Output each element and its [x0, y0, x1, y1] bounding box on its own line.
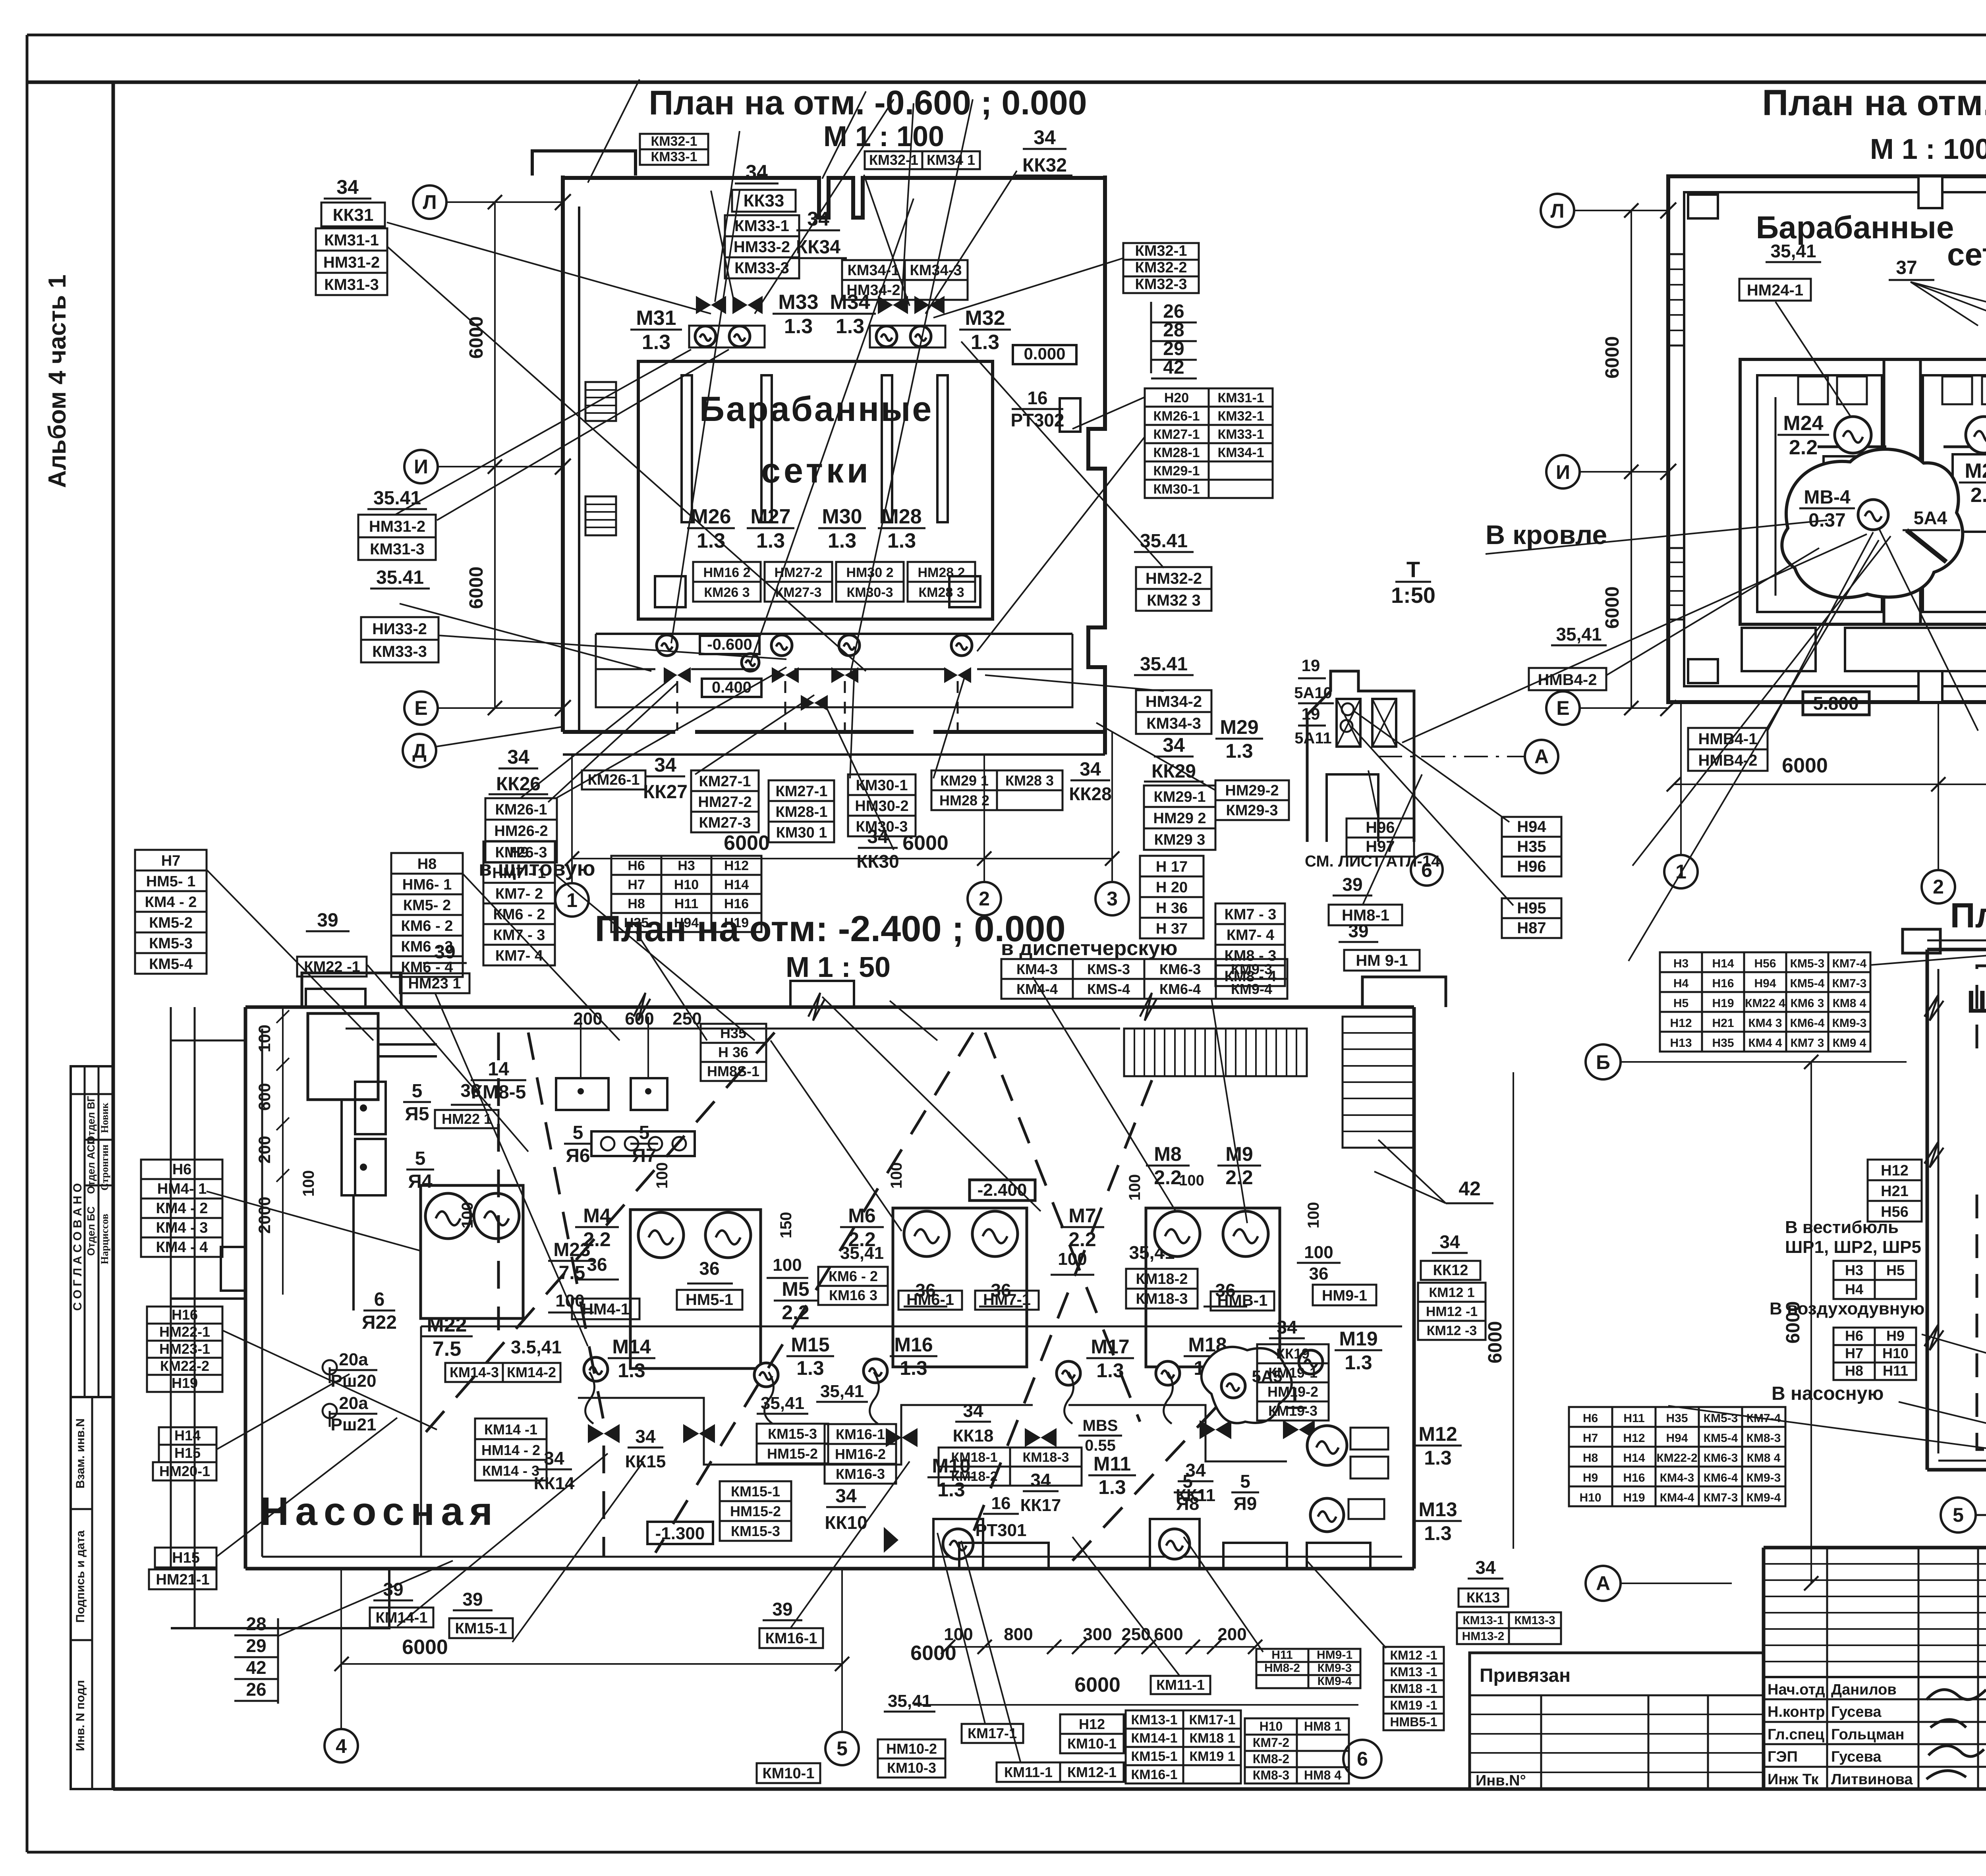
label M9: [1217, 1143, 1261, 1189]
cluster KK15: [628, 1426, 663, 1448]
label 100 36 right: [1297, 1243, 1341, 1283]
svg-text:6000: 6000: [902, 832, 949, 855]
svg-text:КК15: КК15: [625, 1452, 666, 1471]
svg-text:1.3: 1.3: [1096, 1359, 1124, 1382]
boxes 39 KM16-1 bottom: [763, 1599, 802, 1620]
svg-text:800: 800: [1004, 1625, 1033, 1644]
svg-text:КМ18 1: КМ18 1: [1189, 1731, 1235, 1746]
svg-text:КК26: КК26: [496, 774, 541, 795]
table KM4-3 group: [1001, 959, 1287, 999]
svg-text:Л: Л: [423, 191, 437, 213]
svg-text:НМ22 1: НМ22 1: [442, 1111, 492, 1127]
roof blob: [1782, 449, 1963, 598]
cluster KM30 bottom: [848, 774, 916, 836]
boxes NM30: [836, 562, 904, 602]
vzam inv stamp block: [71, 1397, 113, 1789]
svg-text:Н14: Н14: [174, 1427, 201, 1444]
motor M18: [1156, 1361, 1180, 1385]
svg-text:КК32: КК32: [1022, 155, 1067, 176]
svg-text:КМ13 -1: КМ13 -1: [1390, 1665, 1437, 1679]
plan1 left stair hatch: [585, 382, 616, 421]
svg-text:Н7: Н7: [628, 877, 645, 892]
svg-text:34: 34: [507, 746, 529, 768]
box NM9-1 right: [1313, 1285, 1376, 1305]
svg-text:И: И: [1556, 461, 1570, 483]
label M33: [773, 291, 824, 338]
svg-text:Стронгин: Стронгин: [99, 1145, 110, 1191]
plan4 wall breaks: [1924, 925, 1986, 1350]
svg-text:НМ28 2: НМ28 2: [918, 565, 965, 580]
motor M13: [1310, 1498, 1344, 1532]
valve pair left: [696, 296, 711, 314]
plan3 break marks top: [634, 993, 1157, 1021]
svg-text:Я7: Я7: [632, 1145, 656, 1166]
label M6: [840, 1204, 884, 1251]
svg-text:5: 5: [415, 1148, 426, 1169]
svg-text:ГЭП: ГЭП: [1768, 1749, 1798, 1765]
svg-text:6000: 6000: [402, 1636, 448, 1659]
svg-text:КМ19-3: КМ19-3: [1268, 1403, 1318, 1419]
svg-text:КМ7- 4: КМ7- 4: [495, 948, 543, 964]
svg-text:КМ12-1: КМ12-1: [1067, 1764, 1117, 1780]
plan2 vert dim: [1631, 210, 1632, 708]
svg-text:Н56: Н56: [1754, 957, 1776, 970]
svg-text:Н35: Н35: [1712, 1036, 1734, 1050]
svg-text:Н9: Н9: [510, 844, 529, 861]
svg-text:НМ15-2: НМ15-2: [730, 1503, 781, 1519]
svg-text:КМ27-3: КМ27-3: [699, 814, 751, 831]
svg-text:НМ34-2: НМ34-2: [846, 282, 900, 299]
svg-text:М30: М30: [822, 505, 862, 528]
motor group M6: [893, 1208, 1027, 1367]
stack KM12-1 KM13-1: [1383, 1647, 1444, 1730]
cluster KK31: [324, 176, 371, 199]
svg-text:М 1 : 50: М 1 : 50: [786, 952, 891, 983]
plan3 left outer wall stubs: [306, 977, 1446, 1007]
svg-text:5.800: 5.800: [1813, 693, 1858, 714]
svg-text:А: А: [1596, 1572, 1610, 1594]
svg-text:КМ9-4: КМ9-4: [1318, 1675, 1352, 1688]
svg-text:Гусева: Гусева: [1831, 1749, 1882, 1765]
svg-text:КК27: КК27: [643, 782, 688, 803]
svg-text:1.3: 1.3: [887, 529, 916, 552]
svg-text:Барабанные: Барабанные: [699, 389, 933, 428]
plan4 axis A left: [1586, 1566, 1621, 1601]
cluster H6 left mid: [141, 1160, 222, 1257]
ladder 28 29 42 26: [234, 1614, 278, 1704]
svg-text:35,41: 35,41: [820, 1382, 864, 1401]
svg-text:34: 34: [654, 754, 676, 776]
svg-text:КМ6 - 2: КМ6 - 2: [829, 1268, 878, 1284]
svg-text:200: 200: [573, 1009, 602, 1029]
svg-text:КМ5-4: КМ5-4: [149, 956, 193, 973]
svg-text:КМ12 -1: КМ12 -1: [1390, 1648, 1437, 1662]
box KM11-1 bottom: [1151, 1676, 1210, 1694]
label M25 box: [1959, 459, 1986, 507]
svg-text:28: 28: [1163, 320, 1184, 341]
boxes NM32-2: [1136, 567, 1211, 611]
svg-text:29: 29: [1163, 338, 1184, 359]
svg-text:План на отм. -0.600 ; 0.000: План на отм. -0.600 ; 0.000: [649, 84, 1087, 122]
svg-text:МВS: МВS: [1083, 1417, 1118, 1434]
plan2 bottom axes: [1664, 855, 1698, 888]
svg-text:Л: Л: [1550, 200, 1564, 222]
svg-text:КМ19-1: КМ19-1: [1268, 1365, 1318, 1381]
svg-text:Н 36: Н 36: [718, 1044, 748, 1060]
label М27: [747, 505, 794, 552]
motor M16: [864, 1359, 887, 1383]
svg-text:И: И: [414, 455, 428, 478]
svg-text:Новик: Новик: [99, 1103, 110, 1133]
svg-text:НМ30 2: НМ30 2: [846, 565, 893, 580]
label М30: [818, 505, 866, 552]
svg-text:2.2: 2.2: [782, 1301, 809, 1324]
svg-text:КМ33-1: КМ33-1: [651, 149, 697, 164]
svg-text:36: 36: [1309, 1264, 1329, 1283]
svg-text:НМ4- 1: НМ4- 1: [157, 1181, 207, 1197]
svg-text:План на отм. 5.800: План на отм. 5.800: [1762, 83, 1986, 123]
svg-text:НМ14 - 2: НМ14 - 2: [481, 1442, 540, 1458]
svg-text:34: 34: [1277, 1317, 1297, 1338]
plan4 leaders: [1668, 950, 1986, 1453]
svg-text:5: 5: [837, 1737, 848, 1760]
elevation 0.400: [702, 679, 761, 697]
plan4 dashed zone: [1977, 966, 1986, 1449]
misc leaders plan3: [207, 870, 1386, 1763]
svg-text:КМ13-1: КМ13-1: [1462, 1614, 1503, 1627]
svg-text:2.2: 2.2: [1789, 436, 1818, 459]
motor M25: [1966, 417, 1986, 453]
svg-text:КМ30 1: КМ30 1: [776, 824, 827, 841]
svg-text:Инв. N подл: Инв. N подл: [74, 1680, 87, 1751]
svg-text:КМ9-3: КМ9-3: [1318, 1662, 1352, 1675]
svg-text:В кровле: В кровле: [1486, 520, 1607, 550]
svg-text:Н14: Н14: [724, 877, 749, 892]
plan4 bottom axes: [1941, 1498, 1976, 1532]
svg-text:КМ28-1: КМ28-1: [776, 804, 828, 820]
svg-text:Отдел БС: Отдел БС: [85, 1206, 97, 1256]
svg-text:Н12: Н12: [1670, 1017, 1692, 1030]
svg-text:Н94: Н94: [1666, 1432, 1688, 1445]
svg-text:1.3: 1.3: [1424, 1447, 1452, 1469]
svg-text:Взам. инв.N: Взам. инв.N: [74, 1419, 87, 1489]
plan3 upper corridor lines: [171, 1040, 245, 1042]
svg-text:Данилов: Данилов: [1831, 1681, 1897, 1698]
signature squiggles: [1926, 1690, 1986, 1779]
svg-text:Нарциссов: Нарциссов: [99, 1214, 110, 1264]
cluster 35.41 NM31: [367, 488, 427, 509]
svg-text:М9: М9: [1225, 1143, 1253, 1165]
plan3 busbar hatch: [1124, 1029, 1307, 1076]
plan1 vertical dimension line: [494, 202, 496, 708]
svg-text:Альбом 4 часть 1: Альбом 4 часть 1: [44, 274, 71, 488]
svg-text:НМ22-1: НМ22-1: [159, 1324, 210, 1340]
svg-text:НМВ-1: НМВ-1: [1217, 1292, 1268, 1309]
svg-text:КМ15-3: КМ15-3: [731, 1523, 780, 1539]
svg-text:100: 100: [300, 1170, 317, 1197]
axis 1 plan1: [555, 883, 589, 917]
svg-text:М12: М12: [1418, 1423, 1457, 1445]
svg-text:35,41: 35,41: [840, 1243, 884, 1263]
cluster 35.41 NM33: [370, 567, 430, 589]
svg-text:КМ12 1: КМ12 1: [1429, 1285, 1474, 1300]
svg-text:КМ26-1: КМ26-1: [495, 801, 547, 818]
plan3 foundation partition right: [1068, 1405, 1287, 1461]
svg-text:КМ4-3: КМ4-3: [1660, 1471, 1694, 1484]
boxes 39 KM14-1 bottom: [373, 1579, 413, 1600]
svg-text:сетки: сетки: [1947, 237, 1986, 272]
svg-text:Н35: Н35: [1666, 1412, 1688, 1425]
plan2 bottom opening: [1918, 671, 1942, 702]
svg-text:КМ14-3: КМ14-3: [450, 1364, 499, 1380]
svg-text:КМ14 - 3: КМ14 - 3: [482, 1463, 539, 1479]
svg-text:Гусева: Гусева: [1831, 1704, 1882, 1720]
svg-text:1.3: 1.3: [784, 315, 813, 338]
svg-text:Н5: Н5: [1673, 997, 1688, 1010]
svg-text:НМ34-2: НМ34-2: [1146, 693, 1202, 710]
label MV5: [1078, 1417, 1122, 1454]
svg-text:КМ8-3: КМ8-3: [1746, 1432, 1781, 1445]
svg-text:М6: М6: [848, 1204, 875, 1227]
label MV-4: [1799, 487, 1855, 531]
svg-text:КМ31-1: КМ31-1: [1217, 390, 1264, 405]
svg-text:6000: 6000: [1782, 754, 1828, 777]
svg-text:С О Г Л А С О В А Н О: С О Г Л А С О В А Н О: [71, 1183, 84, 1310]
svg-text:М28: М28: [881, 505, 922, 528]
svg-text:НМ7-1: НМ7-1: [983, 1291, 1031, 1309]
svg-text:КМ8-5: КМ8-5: [471, 1082, 526, 1103]
svg-text:100: 100: [255, 1025, 274, 1052]
svg-text:План на отм. 0.000: План на отм. 0.000: [1950, 896, 1986, 935]
svg-text:Н10: Н10: [674, 877, 699, 892]
svg-text:1.3: 1.3: [900, 1357, 927, 1379]
plan4 table top: [1660, 952, 1870, 1052]
svg-text:КМ14-1: КМ14-1: [1131, 1731, 1177, 1746]
cluster 35.41 KM15-3: [757, 1393, 808, 1414]
svg-text:Д: Д: [412, 740, 427, 762]
svg-text:100: 100: [1304, 1243, 1333, 1262]
svg-text:Н16: Н16: [1623, 1471, 1645, 1484]
35.41 right1: [1134, 531, 1194, 552]
plan2 wall hatches: [1668, 254, 1684, 345]
svg-text:КМ5-4: КМ5-4: [1790, 977, 1825, 990]
svg-text:НМ5-1: НМ5-1: [686, 1291, 733, 1309]
cells Ya8 Ya9: [1223, 1543, 1287, 1569]
svg-text:КМ15-1: КМ15-1: [1131, 1749, 1177, 1764]
svg-text:КМ27-1: КМ27-1: [1153, 427, 1200, 442]
plan1 corridor dashed drops: [677, 681, 958, 731]
svg-text:КМ10-3: КМ10-3: [887, 1760, 936, 1776]
svg-text:КМ18-2: КМ18-2: [951, 1469, 997, 1484]
elevation -2.400: [970, 1180, 1035, 1200]
box KM26-1: [582, 770, 645, 789]
svg-text:Н7: Н7: [1845, 1345, 1863, 1361]
motor M15: [754, 1363, 778, 1387]
cluster 34 KK13: [1468, 1557, 1503, 1579]
plan3 top-left entry: [302, 973, 401, 1007]
section SA10 SA11 labels: [1294, 656, 1334, 747]
svg-text:НМ9-1: НМ9-1: [1317, 1648, 1352, 1662]
svg-text:КК12: КК12: [1433, 1262, 1468, 1279]
svg-text:19: 19: [1302, 656, 1320, 675]
svg-text:ШР1, ШР2, ШР5: ШР1, ШР2, ШР5: [1785, 1237, 1921, 1257]
svg-text:200: 200: [255, 1136, 274, 1164]
svg-text:35,41: 35,41: [1770, 241, 1816, 261]
label М26: [687, 505, 735, 552]
svg-text:42: 42: [1163, 357, 1184, 378]
axis E plan1: [404, 691, 438, 725]
svg-text:НМ6- 1: НМ6- 1: [402, 876, 452, 893]
leader lines plan1: [387, 79, 1215, 798]
label KK10: [826, 1486, 866, 1507]
svg-text:НМ13-2: НМ13-2: [1462, 1630, 1505, 1643]
svg-text:М8: М8: [1154, 1143, 1181, 1165]
svg-text:300: 300: [1083, 1625, 1112, 1644]
cluster KK12 right: [1432, 1231, 1468, 1253]
box NMV-1: [1211, 1291, 1274, 1310]
motor group M8 M9: [1146, 1208, 1280, 1367]
svg-text:37: 37: [1896, 257, 1917, 278]
svg-text:М31: М31: [636, 307, 676, 330]
svg-text:2.2: 2.2: [1154, 1166, 1182, 1189]
svg-text:КМ7-3: КМ7-3: [1704, 1491, 1738, 1504]
plan1 left stair hatch 2: [585, 496, 616, 535]
svg-text:План на отм: -2.400 ; 0.000: План на отм: -2.400 ; 0.000: [595, 909, 1065, 949]
svg-text:Н35: Н35: [1517, 838, 1546, 855]
cluster KK11: [1178, 1460, 1213, 1481]
plan2 blob leaders long: [1402, 534, 1891, 961]
bottom valves: [664, 667, 677, 683]
svg-text:Я4: Я4: [408, 1171, 433, 1192]
plan4 box H3 H5: [1833, 1261, 1916, 1299]
svg-text:КМ19 -1: КМ19 -1: [1390, 1698, 1437, 1712]
svg-text:Н3: Н3: [1673, 957, 1688, 970]
svg-text:5А11: 5А11: [1294, 730, 1331, 747]
cluster H8 stack: [391, 853, 463, 977]
svg-text:Т: Т: [1406, 557, 1420, 582]
svg-text:КМ10-1: КМ10-1: [1067, 1735, 1117, 1752]
box KM10-1 bottom: [757, 1763, 820, 1783]
plan2 axis L: [1541, 194, 1574, 227]
svg-text:КМ32-1: КМ32-1: [651, 134, 697, 149]
svg-text:5: 5: [573, 1122, 583, 1143]
svg-text:КМ13-1: КМ13-1: [1131, 1712, 1177, 1727]
svg-text:КК33: КК33: [744, 191, 784, 210]
svg-text:5: 5: [412, 1081, 423, 1102]
svg-text:КМ6-3: КМ6-3: [1159, 961, 1201, 977]
svg-text:КМ8 4: КМ8 4: [1832, 997, 1866, 1010]
cluster KK17: [1023, 1470, 1059, 1491]
svg-text:КК29: КК29: [1151, 761, 1196, 782]
label M31: [630, 307, 682, 354]
svg-text:34: 34: [1034, 126, 1056, 149]
svg-text:М19: М19: [1339, 1328, 1377, 1350]
svg-text:Инв.N°: Инв.N°: [1476, 1772, 1526, 1789]
plan3 bottom wall: [245, 1567, 1414, 1571]
svg-text:34: 34: [635, 1426, 656, 1447]
svg-text:2000: 2000: [255, 1197, 274, 1233]
svg-text:М 1 : 100: М 1 : 100: [1870, 133, 1986, 165]
svg-text:35.41: 35.41: [373, 488, 421, 509]
cluster KK18: [955, 1400, 991, 1422]
cluster KK14: [536, 1448, 572, 1469]
svg-text:КМ9-3: КМ9-3: [1746, 1471, 1781, 1484]
axis ticks pass2: [555, 194, 1676, 716]
svg-text:КМ8-3: КМ8-3: [1253, 1768, 1289, 1782]
svg-text:НМ27-2: НМ27-2: [698, 794, 752, 811]
svg-text:НМВ5-1: НМВ5-1: [1390, 1715, 1437, 1729]
svg-text:КМ5-3: КМ5-3: [149, 935, 193, 952]
svg-text:34: 34: [1475, 1557, 1496, 1578]
svg-text:НМ19-2: НМ19-2: [1267, 1384, 1318, 1400]
svg-text:36: 36: [915, 1280, 935, 1301]
svg-text:100: 100: [1179, 1172, 1204, 1189]
svg-text:КМ26-1: КМ26-1: [588, 772, 640, 788]
svg-text:Н96: Н96: [1366, 819, 1395, 836]
svg-text:М14: М14: [612, 1336, 651, 1358]
svg-text:КМ16-1: КМ16-1: [765, 1630, 817, 1647]
svg-text:14: 14: [488, 1059, 509, 1080]
svg-text:Н11: Н11: [674, 896, 699, 911]
svg-text:КМ18-3: КМ18-3: [1136, 1291, 1188, 1307]
svg-text:НМ9-1: НМ9-1: [1322, 1287, 1367, 1304]
plan1 outer walls: [563, 176, 1105, 755]
svg-text:НИ33-2: НИ33-2: [372, 620, 427, 638]
svg-text:Н87: Н87: [1517, 919, 1546, 937]
plan3 inner left wall: [342, 1100, 354, 1310]
svg-text:2: 2: [1933, 876, 1944, 898]
section switches: [1342, 703, 1354, 715]
svg-text:34: 34: [336, 176, 359, 198]
svg-text:М11: М11: [1093, 1453, 1131, 1475]
svg-text:100: 100: [888, 1162, 905, 1189]
cluster KM29 KM28 bottom: [931, 770, 1063, 810]
svg-text:Н14: Н14: [1623, 1451, 1645, 1465]
plan2 leaders: [1768, 278, 1986, 731]
label 16 RT302: [1011, 388, 1064, 430]
boxes 39 NM8-1: [1333, 874, 1372, 896]
cluster 35.41 KM16 stack: [816, 1382, 868, 1402]
svg-text:КМ10-1: КМ10-1: [763, 1765, 815, 1782]
bottom tables trio: [1060, 1714, 1124, 1753]
cluster 20a Rsh20: [330, 1350, 377, 1391]
svg-text:НМ26-2: НМ26-2: [494, 823, 548, 840]
boxes NM16 KM26: [693, 562, 761, 602]
svg-text:КМ30-1: КМ30-1: [1153, 482, 1200, 497]
box NM6-1: [898, 1291, 962, 1310]
plan3 axis 5: [825, 1732, 859, 1765]
plan3 right wall: [1412, 1007, 1416, 1569]
svg-text:НМ28 2: НМ28 2: [939, 792, 989, 809]
svg-text:Н16: Н16: [1712, 977, 1734, 990]
svg-text:М16: М16: [894, 1334, 933, 1356]
svg-text:Н14: Н14: [1712, 957, 1734, 970]
svg-text:39: 39: [462, 1589, 483, 1610]
svg-text:КМ4 - 2: КМ4 - 2: [145, 894, 197, 911]
motor M32 unit: [870, 326, 945, 347]
svg-text:100: 100: [459, 1202, 476, 1229]
svg-text:НМ24-1: НМ24-1: [1747, 282, 1803, 299]
svg-text:КМ32 3: КМ32 3: [1147, 592, 1201, 609]
motor M11 unit: [1150, 1519, 1200, 1569]
sheet outer border: [27, 34, 1986, 37]
table H11 NM9-1: [1256, 1648, 1360, 1688]
elevation -0.600: [700, 636, 759, 654]
svg-text:М27: М27: [750, 505, 790, 528]
svg-text:0.000: 0.000: [1024, 344, 1065, 363]
svg-text:Гольцман: Гольцман: [1831, 1726, 1904, 1743]
svg-text:Н94: Н94: [1517, 818, 1546, 836]
